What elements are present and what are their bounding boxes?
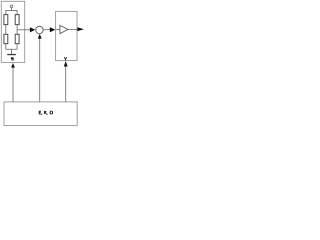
resistor R2	[15, 15, 19, 25]
summing junction circle	[36, 26, 43, 33]
arrowhead into amplifier box	[50, 27, 56, 32]
wire riser to amplifier box	[65, 66, 67, 102]
resistor R4	[15, 34, 19, 43]
ground terminal bar	[7, 54, 16, 55]
sensor box S	[1, 1, 24, 62]
wire right mid	[16, 25, 18, 35]
wire left mid	[5, 25, 7, 35]
wire S box to summing point	[25, 29, 31, 31]
wire top bar	[6, 10, 17, 12]
wire right drop	[16, 10, 18, 15]
amplifier input line	[56, 28, 60, 30]
op-amp triangle	[60, 25, 68, 33]
amplifier box V	[56, 11, 77, 60]
wire bridge tap	[17, 29, 25, 31]
wire riser to summing point	[39, 38, 41, 102]
arrowhead into summing point	[30, 27, 35, 32]
wire summing point to amplifier	[43, 29, 50, 31]
bridge top terminal circle	[10, 5, 13, 8]
supply box E,K,O	[4, 102, 77, 126]
wire stem from terminal	[11, 8, 13, 11]
arrowhead into sensor box	[11, 63, 15, 68]
resistor R1	[4, 15, 8, 25]
amplifier output line	[68, 28, 77, 30]
wire center stem	[11, 49, 13, 54]
wire riser to sensor box	[12, 67, 14, 102]
wire bottom bar	[6, 48, 17, 50]
arrowhead into summing point from below	[38, 34, 42, 39]
output arrowhead	[78, 27, 85, 31]
label V	[64, 57, 66, 60]
label S	[11, 58, 13, 60]
resistor R3	[4, 34, 8, 43]
wire left bottom stub	[5, 44, 7, 50]
label E, K, O	[39, 111, 52, 115]
wire right bottom stub	[16, 44, 18, 50]
wire left drop	[5, 10, 7, 15]
arrowhead into amplifier box	[64, 61, 68, 67]
